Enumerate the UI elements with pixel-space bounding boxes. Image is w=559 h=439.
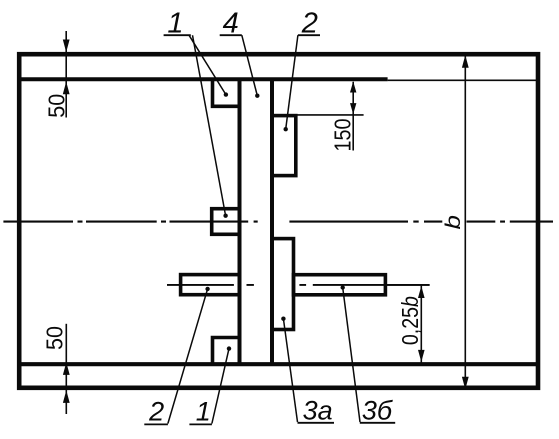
svg-text:50: 50 — [44, 94, 70, 118]
leader from label 1 to middle stiffener — [193, 35, 226, 216]
leader from label 2 bottom to left bar — [168, 289, 208, 424]
dimension b — [464, 55, 466, 390]
leader from label 1 bottom to bottom stiffener — [212, 349, 229, 424]
leader from label 3a to rect 3a — [283, 319, 297, 422]
svg-text:150: 150 — [329, 119, 355, 152]
leader from label 3b to right bar — [343, 288, 360, 423]
stiffener 1 bottom rect — [213, 338, 240, 365]
stiffener 2 right rect — [272, 116, 296, 176]
svg-text:50: 50 — [42, 326, 68, 350]
stiffener 3a rect — [272, 239, 294, 330]
inner top flange line (thin part) — [388, 79, 537, 81]
svg-text:2: 2 — [148, 397, 164, 427]
inner bottom flange line — [19, 362, 537, 366]
stiffener 1 middle rect — [212, 209, 240, 235]
svg-text:3а: 3а — [303, 396, 333, 426]
horizontal bar left (2) — [181, 275, 240, 295]
leader from label 1 to top stiffener — [168, 35, 360, 423]
outer plate rectangle — [19, 54, 538, 388]
dimension 50 bottom — [65, 324, 67, 414]
inner top flange line (thick part) — [19, 77, 388, 81]
leader from label 2 top to stiffener 2 — [286, 35, 298, 129]
horizontal centerline (dash-dot) — [3, 221, 553, 223]
svg-text:0,25b: 0,25b — [397, 296, 423, 345]
svg-text:3б: 3б — [362, 395, 393, 425]
leader dots — [205, 92, 344, 350]
dimension 0.25b — [384, 285, 430, 363]
dimension 50 top — [65, 31, 67, 118]
rib 4 left line — [238, 78, 242, 365]
horizontal bar right (3b) — [294, 275, 386, 295]
svg-text:b: b — [442, 215, 465, 230]
rib 4 right line — [270, 78, 274, 365]
bar centerline (dash-dot) — [167, 284, 430, 286]
stiffener 1 top rect — [213, 78, 240, 106]
leader from label 4 to rib — [242, 35, 257, 95]
svg-text:1: 1 — [196, 397, 211, 427]
dimension 150 — [297, 82, 364, 151]
